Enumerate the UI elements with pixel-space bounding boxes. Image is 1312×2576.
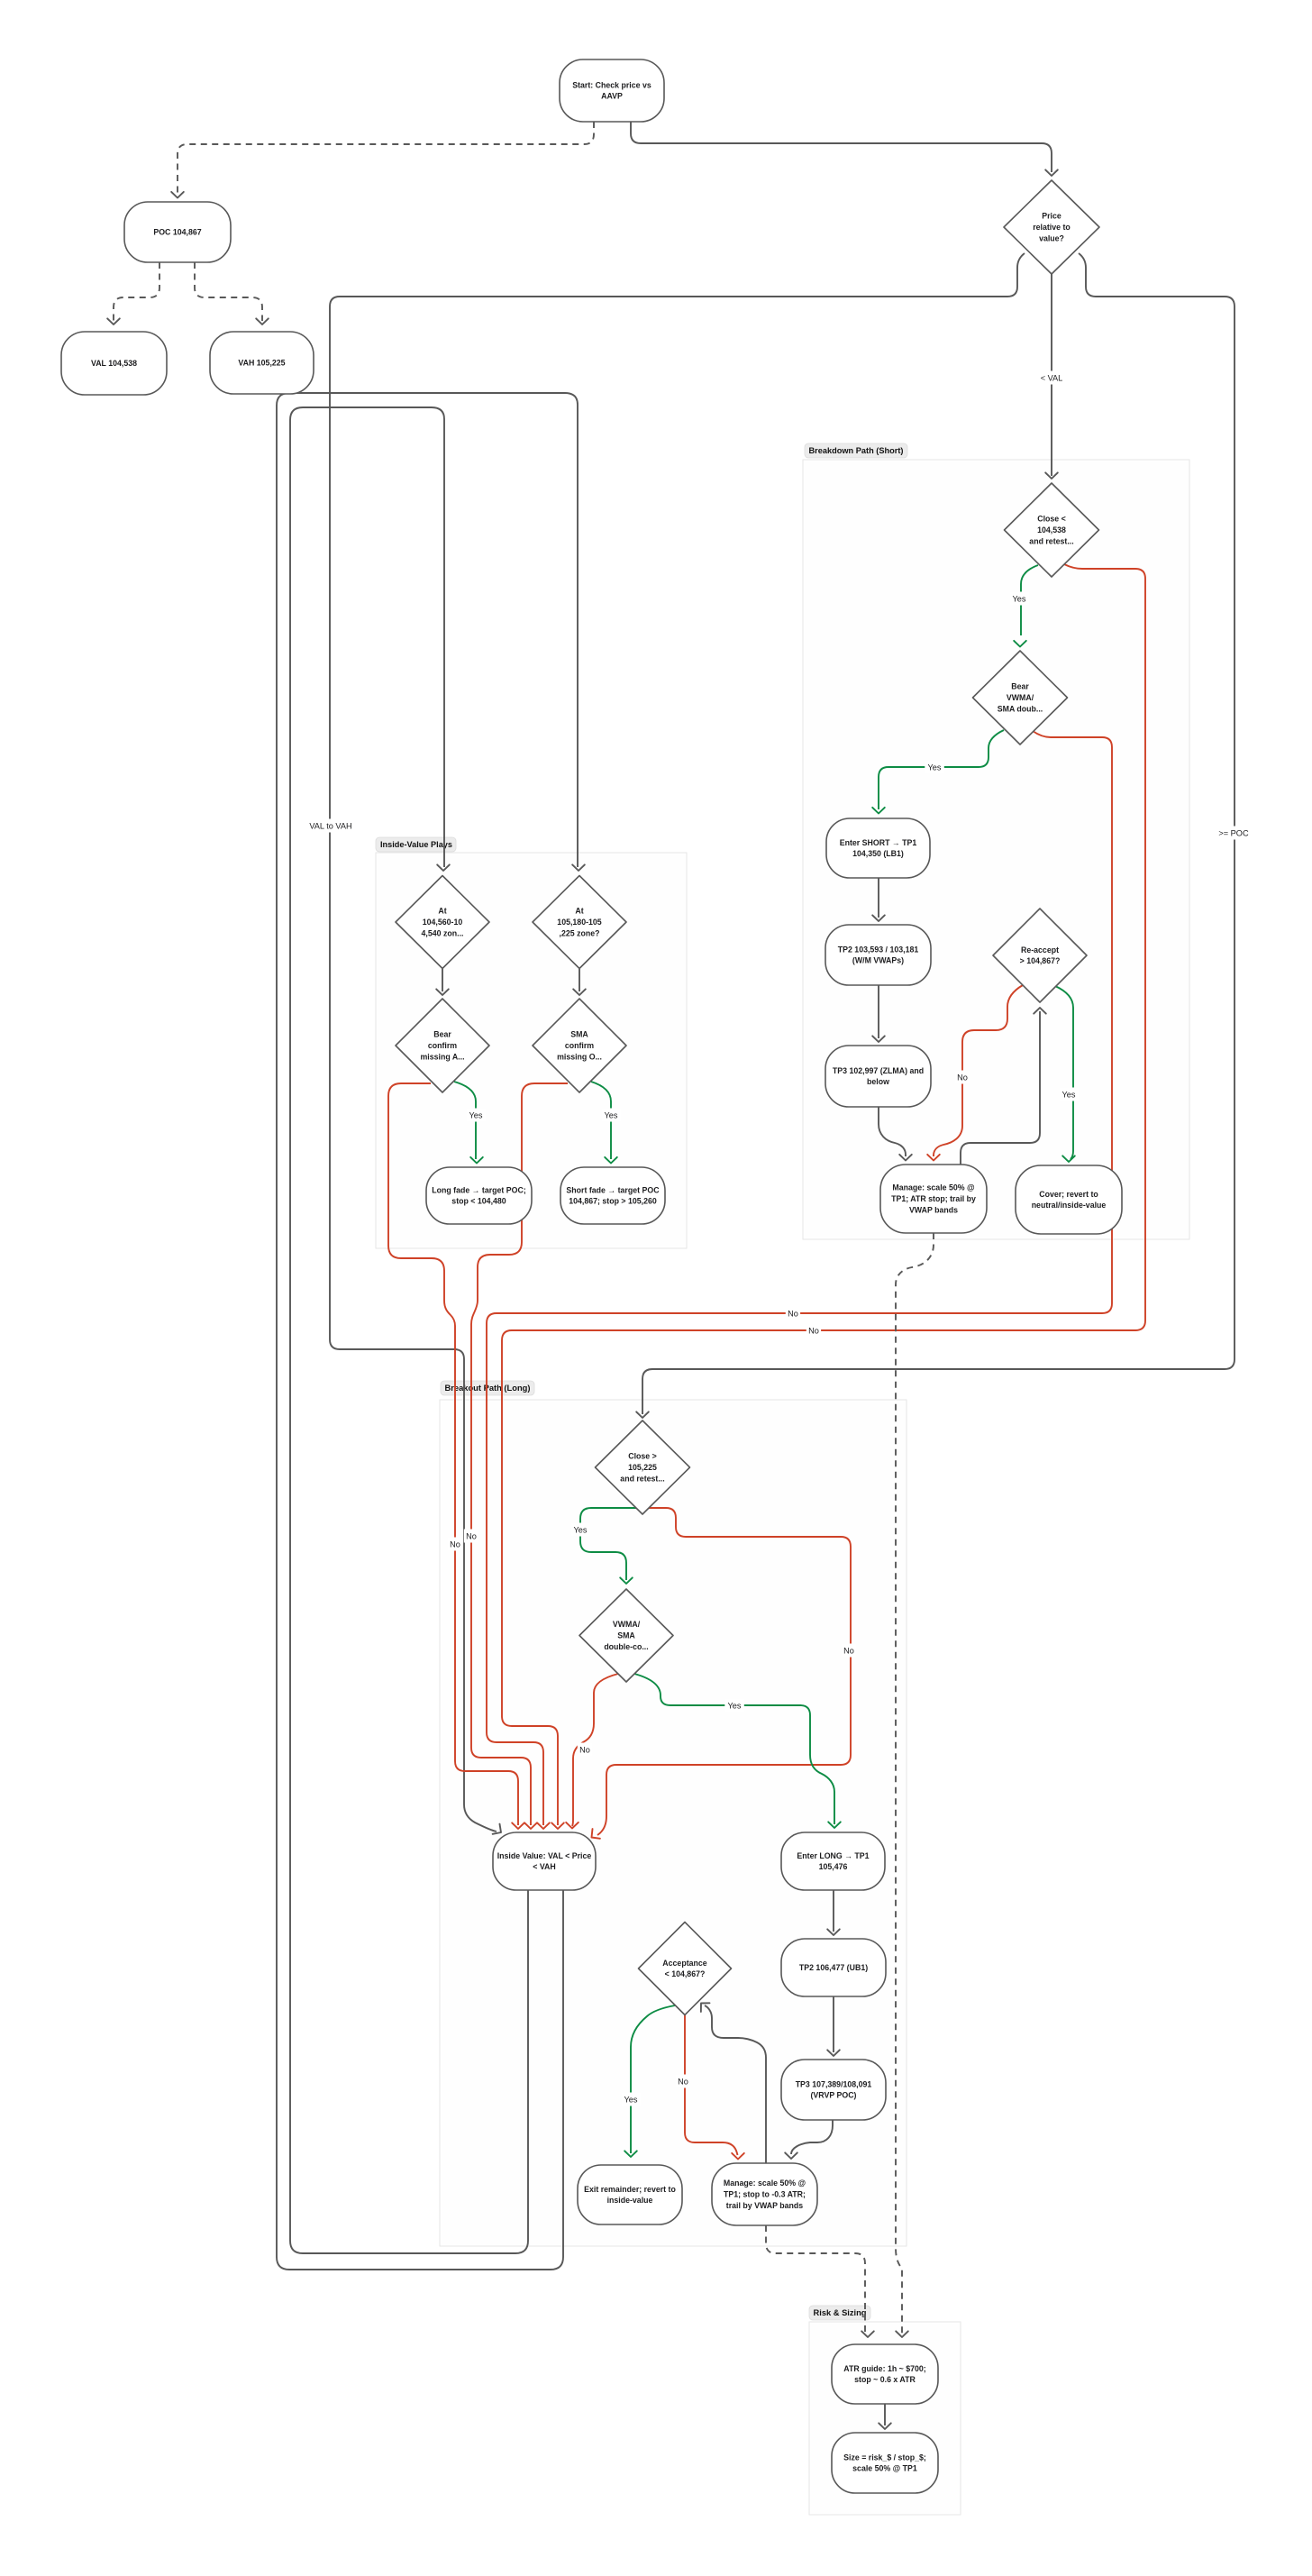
edge: Bear-VWMA No to Inside-Value (red) xyxy=(487,731,1112,1825)
decision: Acceptance < 104,867? xyxy=(639,1923,732,2015)
svg-text:Yes: Yes xyxy=(1013,595,1026,604)
edge: SMA-confirm No to Inside-Value (red) xyxy=(471,1083,568,1825)
svg-text:Yes: Yes xyxy=(624,2096,638,2105)
svg-text:No: No xyxy=(466,1532,477,1541)
svg-text:Price: Price xyxy=(1042,212,1061,221)
svg-text:No: No xyxy=(678,2078,688,2087)
edge: Manage (short) to ATR guide (dashed) xyxy=(896,1233,934,2334)
edge: Price diamond to Close-below diamond, label < VAL xyxy=(1051,274,1052,476)
node: TP2 short xyxy=(825,925,931,985)
label: No (BearVWMA) xyxy=(786,1307,800,1320)
edge: Bear-VWMA Yes to Enter SHORT (green) xyxy=(879,730,1004,809)
svg-text:Cover; revert to: Cover; revert to xyxy=(1039,1190,1098,1199)
svg-text:Bear: Bear xyxy=(433,1030,451,1039)
edge: VWMA No to Inside-Value (red) xyxy=(572,1674,618,1826)
svg-text:Exit remainder; revert to: Exit remainder; revert to xyxy=(584,2185,676,2194)
node: VAL 104,538 xyxy=(61,332,167,395)
svg-text:TP1; ATR stop; trail by: TP1; ATR stop; trail by xyxy=(891,1194,976,1203)
decision: Re-accept > 104,867? xyxy=(993,909,1087,1002)
svg-text:No: No xyxy=(808,1327,819,1336)
node: Long fade xyxy=(426,1167,532,1224)
svg-text:ATR guide: 1h ~ $700;: ATR guide: 1h ~ $700; xyxy=(843,2364,926,2373)
edge: Bear-confirm No to Inside-Value (red) xyxy=(388,1083,518,1825)
edge: TP3 to Manage (long) xyxy=(791,2120,833,2154)
svg-text:POC 104,867: POC 104,867 xyxy=(153,228,201,237)
svg-text:scale 50% @ TP1: scale 50% @ TP1 xyxy=(852,2464,917,2473)
svg-text:Yes: Yes xyxy=(1062,1091,1076,1100)
label: Yes (BearVWMA to Enter SHORT) xyxy=(925,761,944,774)
svg-text:At: At xyxy=(438,907,446,916)
svg-text:neutral/inside-value: neutral/inside-value xyxy=(1032,1201,1107,1210)
edge: Close-above No to Inside-Value (red) xyxy=(597,1508,851,1835)
svg-text:VAL to VAH: VAL to VAH xyxy=(309,822,351,831)
svg-text:SMA doub...: SMA doub... xyxy=(998,704,1043,713)
svg-text:confirm: confirm xyxy=(565,1041,594,1050)
edge: Re-accept Yes to Cover (green) xyxy=(1055,986,1073,1159)
label: >= POC xyxy=(1217,827,1251,840)
node: Start xyxy=(560,59,664,122)
label: No (Close>) xyxy=(842,1644,856,1658)
svg-text:104,560-10: 104,560-10 xyxy=(423,918,463,927)
svg-text:TP3 107,389/108,091: TP3 107,389/108,091 xyxy=(796,2079,872,2088)
svg-text:Yes: Yes xyxy=(605,1111,618,1120)
decision: Close < 104,538 and retest xyxy=(1005,483,1099,577)
decision: VWMA/SMA double confirm xyxy=(579,1589,673,1682)
svg-text:At: At xyxy=(575,907,583,916)
svg-text:Risk & Sizing: Risk & Sizing xyxy=(814,2308,867,2318)
svg-text:Yes: Yes xyxy=(469,1111,483,1120)
svg-text:Yes: Yes xyxy=(728,1702,742,1711)
label: Yes (Close< to BearVWMA) xyxy=(1009,592,1029,606)
label: No (VWMA) xyxy=(578,1743,592,1757)
edge: TP2 to TP3 (long) xyxy=(833,1996,834,2052)
node: Manage long xyxy=(712,2163,817,2225)
edge: Acceptance Yes to Exit remainder (green) xyxy=(631,2005,675,2153)
svg-text:Close <: Close < xyxy=(1037,515,1066,524)
svg-text:Breakdown Path (Short): Breakdown Path (Short) xyxy=(809,446,904,456)
edge: TP2 to TP3 (short) xyxy=(878,985,879,1038)
svg-text:TP2 103,593 / 103,181: TP2 103,593 / 103,181 xyxy=(838,945,919,954)
svg-text:104,538: 104,538 xyxy=(1037,525,1066,534)
svg-text:>= POC: >= POC xyxy=(1218,829,1249,838)
svg-text:missing A...: missing A... xyxy=(420,1052,464,1061)
svg-text:105,476: 105,476 xyxy=(819,1862,848,1871)
svg-text:> 104,867?: > 104,867? xyxy=(1020,956,1061,965)
edge: SMA-confirm Yes to Short fade (green) xyxy=(591,1082,611,1159)
edge: ATR guide to Size xyxy=(884,2404,886,2425)
edge: Manage (long) to ATR guide (dashed) xyxy=(766,2225,865,2334)
edge: Inside-Value to At-104560 diamond (loop) xyxy=(290,407,528,2253)
svg-text:and retest...: and retest... xyxy=(620,1474,664,1483)
svg-text:No: No xyxy=(788,1310,798,1319)
node: Manage short xyxy=(880,1165,987,1233)
node: Size xyxy=(832,2433,938,2493)
svg-text:Yes: Yes xyxy=(928,763,942,772)
svg-text:trail by VWAP bands: trail by VWAP bands xyxy=(726,2201,803,2210)
decision: Bear VWMA/SMA double confirm xyxy=(973,651,1068,744)
svg-text:TP2 106,477 (UB1): TP2 106,477 (UB1) xyxy=(799,1963,868,1972)
label: No (Close<) xyxy=(806,1324,821,1338)
svg-text:Start: Check price vs: Start: Check price vs xyxy=(572,80,651,89)
svg-text:< VAL: < VAL xyxy=(1041,374,1063,383)
svg-text:double-co...: double-co... xyxy=(604,1642,648,1651)
svg-text:confirm: confirm xyxy=(428,1041,457,1050)
svg-text:Long fade → target POC;: Long fade → target POC; xyxy=(432,1185,526,1194)
edge: Manage (long) up to Acceptance diamond xyxy=(705,2005,766,2163)
edge: Manage (short) up to Re-accept diamond xyxy=(961,1011,1040,1165)
svg-text:Inside-Value Plays: Inside-Value Plays xyxy=(380,840,452,850)
label: No (SMA confirm) xyxy=(464,1530,478,1543)
svg-text:inside-value: inside-value xyxy=(607,2196,653,2205)
node: Enter LONG TP1 xyxy=(781,1832,885,1890)
decision: SMA confirm missing O xyxy=(533,999,626,1092)
svg-text:VAL 104,538: VAL 104,538 xyxy=(91,359,137,368)
svg-text:104,867; stop > 105,260: 104,867; stop > 105,260 xyxy=(569,1197,657,1206)
svg-text:104,350 (LB1): 104,350 (LB1) xyxy=(852,849,904,858)
subgraph Inside-Value Plays xyxy=(376,837,687,1248)
edge: At-104560 diamond to Bear-confirm xyxy=(442,969,443,991)
svg-text:,225 zone?: ,225 zone? xyxy=(560,928,600,937)
edge: Close-below No to Inside-Value (red) xyxy=(502,564,1145,1825)
svg-text:Size = risk_$ / stop_$;: Size = risk_$ / stop_$; xyxy=(843,2453,926,2462)
label: Yes (SMA confirm) xyxy=(601,1109,621,1122)
svg-text:VWMA/: VWMA/ xyxy=(1007,693,1034,702)
edge: Re-accept No back to Manage (red) xyxy=(934,985,1023,1156)
decision: Bear confirm missing A xyxy=(396,999,489,1092)
label: Yes (Acceptance) xyxy=(621,2093,641,2106)
decision: Price relative to value? xyxy=(1004,180,1099,274)
edge: Close-below Yes to Bear-VWMA diamond (green) xyxy=(1021,565,1038,635)
edge: Bear-confirm Yes to Long fade (green) xyxy=(454,1082,476,1159)
decision: At 104,560-104,540 zone xyxy=(396,876,489,969)
svg-text:stop < 104,480: stop < 104,480 xyxy=(451,1197,506,1206)
svg-text:Enter LONG → TP1: Enter LONG → TP1 xyxy=(797,1851,869,1860)
edge: POC to VAH (dashed) xyxy=(195,262,262,321)
edge: Close-above Yes to VWMA diamond (green) xyxy=(580,1508,636,1580)
svg-text:Short fade → target POC: Short fade → target POC xyxy=(566,1185,660,1194)
svg-text:No: No xyxy=(579,1746,590,1755)
edge: Enter LONG to TP2 xyxy=(833,1890,834,1932)
subgraph Risk & Sizing xyxy=(809,2306,961,2515)
svg-text:value?: value? xyxy=(1039,233,1064,242)
svg-text:4,540 zon...: 4,540 zon... xyxy=(422,928,464,937)
edge: TP3 to Manage (short) xyxy=(879,1107,906,1156)
node: TP3 long xyxy=(781,2060,886,2120)
edge: Start to POC (dashed) xyxy=(178,122,594,195)
node: Cover revert xyxy=(1016,1165,1122,1234)
node: Exit remainder xyxy=(578,2165,682,2224)
svg-text:Yes: Yes xyxy=(574,1526,588,1535)
node: Inside Value xyxy=(493,1832,596,1890)
node: TP2 long xyxy=(781,1939,886,1996)
svg-text:Bear: Bear xyxy=(1011,682,1029,691)
decision: Close > 105,225 and retest xyxy=(596,1420,690,1514)
label: VAL to VAH xyxy=(305,819,357,833)
edge: Acceptance No to Manage (red) xyxy=(685,2015,738,2155)
svg-text:VWMA/: VWMA/ xyxy=(613,1620,641,1629)
label: Yes (Re-accept) xyxy=(1059,1088,1079,1101)
label: No (Acceptance) xyxy=(676,2075,690,2088)
node: Short fade xyxy=(560,1167,665,1224)
edge: Start to Price-relative diamond xyxy=(631,122,1052,172)
svg-text:TP1; stop to -0.3 ATR;: TP1; stop to -0.3 ATR; xyxy=(724,2190,806,2199)
svg-text:VWAP bands: VWAP bands xyxy=(909,1205,958,1214)
svg-text:Manage: scale 50% @: Manage: scale 50% @ xyxy=(892,1183,975,1192)
svg-text:below: below xyxy=(867,1077,889,1086)
edge: VWMA Yes to Enter LONG (green) xyxy=(634,1674,834,1824)
subgraph Breakdown Path (Short) xyxy=(803,443,1189,1239)
svg-text:and retest...: and retest... xyxy=(1029,536,1073,545)
decision: At 105,180-105,225 zone xyxy=(533,876,626,969)
node: ATR guide xyxy=(832,2344,938,2404)
edge: Price diamond to Inside-Value node, label VAL to VAH xyxy=(330,253,1025,1832)
subgraph Breakout Path (Long) xyxy=(440,1381,907,2246)
label: No (Re-accept) xyxy=(955,1071,970,1084)
label: < VAL xyxy=(1037,371,1066,385)
svg-text:Close >: Close > xyxy=(628,1452,657,1461)
label: Yes (Bear confirm) xyxy=(466,1109,486,1122)
edge: Inside-Value to At-105180 diamond (loop) xyxy=(277,393,578,2270)
svg-text:relative to: relative to xyxy=(1033,223,1071,232)
edge: Price diamond to Close-above diamond, label >= POC xyxy=(642,253,1235,1414)
svg-text:(W/M VWAPs): (W/M VWAPs) xyxy=(852,956,904,965)
svg-text:105,180-105: 105,180-105 xyxy=(557,918,602,927)
label: Yes (VWMA) xyxy=(724,1699,744,1713)
svg-text:No: No xyxy=(450,1540,460,1549)
svg-text:< 104,867?: < 104,867? xyxy=(665,1969,706,1978)
label: Yes (Close>) xyxy=(570,1523,590,1537)
svg-text:missing O...: missing O... xyxy=(557,1052,602,1061)
node: TP3 short xyxy=(825,1046,931,1107)
label: No (Bear confirm) xyxy=(448,1538,462,1551)
svg-text:VAH 105,225: VAH 105,225 xyxy=(238,359,285,368)
svg-text:(VRVP POC): (VRVP POC) xyxy=(810,2091,856,2100)
edge: At-105180 diamond to SMA-confirm xyxy=(579,969,580,991)
svg-text:No: No xyxy=(843,1647,854,1656)
node: POC 104,867 xyxy=(124,202,231,262)
svg-text:< VAH: < VAH xyxy=(533,1862,556,1871)
svg-text:Breakout Path (Long): Breakout Path (Long) xyxy=(445,1384,531,1393)
svg-text:No: No xyxy=(957,1073,968,1082)
svg-text:TP3 102,997 (ZLMA) and: TP3 102,997 (ZLMA) and xyxy=(833,1066,924,1075)
svg-text:Enter SHORT → TP1: Enter SHORT → TP1 xyxy=(840,838,917,847)
svg-text:105,225: 105,225 xyxy=(628,1463,657,1472)
node: Enter SHORT TP1 xyxy=(826,818,930,878)
svg-text:Manage: scale 50% @: Manage: scale 50% @ xyxy=(724,2179,806,2188)
svg-text:stop ~ 0.6 x ATR: stop ~ 0.6 x ATR xyxy=(854,2375,916,2384)
edge: POC to VAL (dashed) xyxy=(114,262,159,321)
node: VAH 105,225 xyxy=(210,332,314,394)
svg-text:Inside Value: VAL < Price: Inside Value: VAL < Price xyxy=(497,1851,592,1860)
edge: Enter SHORT to TP2 xyxy=(878,878,879,918)
svg-text:AAVP: AAVP xyxy=(601,92,623,101)
svg-text:SMA: SMA xyxy=(570,1030,588,1039)
svg-text:Acceptance: Acceptance xyxy=(662,1959,706,1968)
svg-text:Re-accept: Re-accept xyxy=(1021,945,1059,955)
svg-text:SMA: SMA xyxy=(617,1631,635,1640)
